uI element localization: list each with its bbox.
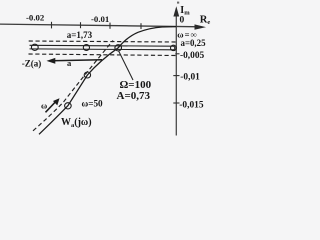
- svg-text:ω=50: ω=50: [82, 99, 104, 109]
- svg-text:0: 0: [180, 15, 185, 25]
- svg-text:a=0,25: a=0,25: [181, 38, 207, 48]
- tick -0,015 on Im axis: [173, 102, 179, 104]
- W_a(j omega) locus curve: [39, 27, 176, 135]
- tick -0,02: [51, 22, 53, 29]
- svg-text:Wa(jω): Wa(jω): [61, 117, 92, 129]
- real axis Re: [0, 24, 201, 27]
- svg-text:-0,01: -0,01: [180, 73, 200, 83]
- marker circle on band a=1,73: [83, 45, 89, 51]
- svg-text:-0,005: -0,005: [180, 51, 205, 61]
- svg-text:A=0,73: A=0,73: [117, 90, 151, 102]
- svg-text:-0,015: -0,015: [179, 100, 204, 110]
- tick -0,015: [80, 22, 82, 28]
- tick -0,01: [109, 23, 111, 29]
- svg-text:ω: ω: [41, 101, 47, 111]
- svg-text:-Z(a): -Z(a): [22, 58, 42, 68]
- tick -0,01 on Im axis: [173, 75, 179, 77]
- marker circle on band (left): [31, 44, 38, 50]
- -Z(a) band rounded right end cap: [173, 46, 175, 50]
- tick -0,005: [140, 23, 142, 29]
- svg-text:Ω=100: Ω=100: [120, 79, 152, 91]
- omega direction arrow on corridor line: [46, 102, 56, 113]
- -Z(a) band corridor: lower dashed line: [29, 54, 176, 56]
- svg-text:-0.01: -0.01: [91, 14, 109, 24]
- marker circle on W locus omega=50: [65, 103, 72, 109]
- svg-text:a=1,73: a=1,73: [67, 30, 93, 40]
- -Z(a) locus band lower line: [30, 48, 174, 51]
- imaginary axis arrowhead: [173, 6, 179, 16]
- marker circle on W locus (middle): [84, 72, 90, 78]
- svg-text:-0.02: -0.02: [26, 12, 45, 22]
- marker circle at band/curve intersection (limit cycle point): [115, 45, 122, 51]
- marker circle at band right end a=0,25: [171, 45, 177, 50]
- -Z(a) band corridor: upper dashed line: [29, 41, 176, 42]
- dashed corridor line along W locus (diagonal): [33, 41, 113, 131]
- tick -0,005 on Im axis: [175, 53, 179, 55]
- a-bar direction arrow (left) on band: [52, 59, 102, 62]
- leader line from limit-cycle circle to Omega label: [119, 51, 133, 80]
- imaginary axis Im: [175, 9, 177, 136]
- -Z(a) locus band upper line: [30, 44, 174, 47]
- real axis arrowhead: [195, 24, 207, 29]
- speck above Im arrowhead: [177, 2, 179, 4]
